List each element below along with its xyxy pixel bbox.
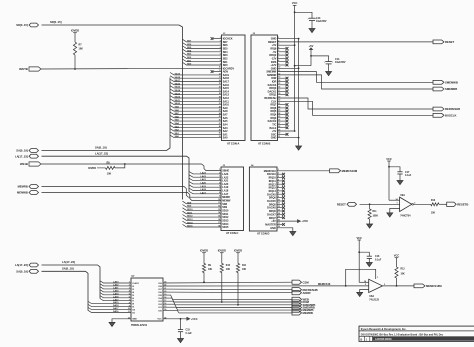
wire R13 to RESETB terminal: [439, 203, 447, 205]
terminal SMEMWB: [292, 303, 302, 307]
svg-text:SA14: SA14: [175, 89, 181, 92]
svg-text:MEMCS16: MEMCS16: [318, 282, 331, 286]
svg-text:SA17: SA17: [113, 307, 119, 310]
svg-text:1234568 98066: 1234568 98066: [375, 338, 392, 341]
svg-text:BUSCLK: BUSCLK: [445, 113, 456, 117]
svg-text:SA12: SA12: [175, 96, 181, 99]
wire MEMRB to MEMR pin: [42, 187, 222, 198]
wire SMEMW to terminal SMEMWB: [278, 72, 434, 83]
terminal RESETB: [447, 202, 457, 206]
svg-text:LA[17..23]: LA[17..23]: [15, 263, 28, 267]
wire U8A enable loop: [346, 269, 376, 286]
wire +5V to VCC rail: [295, 65, 311, 67]
svg-text:IOVDD: IOVDD: [88, 167, 96, 170]
svg-text:SA19: SA19: [175, 73, 181, 76]
ground below U9A: [387, 213, 393, 217]
junction MEMCS16/enable: [345, 285, 347, 287]
no-connect stub pin D2 IOCS16: [277, 173, 283, 175]
wire GND pin D18 to ground: [277, 228, 293, 232]
no-connect stub pin B18 DRQ1: [278, 94, 287, 96]
svg-text:AT CON-B: AT CON-B: [258, 141, 271, 145]
svg-text:IOVDD: IOVDD: [218, 249, 226, 253]
svg-text:R12: R12: [401, 269, 406, 271]
no-connect stub pin B25 IRQ3: [278, 117, 287, 119]
power terminal +VCC at AT CON-D: [298, 220, 301, 223]
terminal MEMCS16M mid: [330, 169, 341, 173]
svg-text:IO3: IO3: [158, 301, 162, 303]
svg-text:R11: R11: [242, 265, 247, 267]
svg-text:WAITB: WAITB: [19, 67, 28, 71]
svg-text:74HCT04: 74HCT04: [400, 215, 411, 218]
capacitor C16 0.1uF: [359, 252, 369, 256]
svg-text:VCC: VCC: [356, 236, 362, 240]
capacitor C15 0.1uF: [180, 319, 182, 330]
wire MEMCS16 pin to terminal MEMCS16M: [277, 170, 330, 172]
svg-text:10K: 10K: [431, 213, 436, 215]
svg-text:RESET: RESET: [337, 202, 346, 206]
svg-text:1: 1: [129, 282, 130, 284]
svg-text:LA21: LA21: [201, 178, 207, 181]
svg-text:VCC: VCC: [157, 319, 162, 321]
no-connect stub pin D5 IRQ12: [277, 183, 283, 185]
svg-text:11: 11: [128, 311, 130, 313]
wire GND pin B31 to rail: [278, 137, 299, 139]
svg-text:SA16: SA16: [113, 310, 119, 313]
svg-text:R13: R13: [431, 200, 436, 202]
svg-text:SA16: SA16: [175, 82, 181, 85]
terminal MEMRB: [292, 311, 302, 315]
connector J? AT CON-A: [222, 35, 246, 141]
svg-text:100K: 100K: [373, 215, 379, 217]
terminal REFRESHB: [292, 288, 302, 292]
svg-text:MEMRB: MEMRB: [303, 311, 313, 315]
svg-text:IO4: IO4: [158, 297, 162, 300]
terminal ROM: [292, 300, 302, 304]
svg-text:SD[0..15]: SD[0..15]: [50, 20, 62, 24]
svg-text:R9: R9: [208, 265, 212, 267]
wire +5V pin B3 to VCC rail: [278, 44, 295, 46]
wire WE1B to SBHE pin: [41, 164, 221, 171]
svg-text:I7: I7: [132, 301, 135, 303]
terminal ADDR: [292, 291, 302, 295]
svg-text:I5: I5: [132, 295, 135, 297]
svg-text:CLK/I1: CLK/I1: [132, 283, 139, 285]
svg-text:SD15: SD15: [222, 226, 229, 229]
svg-text:2: 2: [365, 284, 366, 286]
capacitor C14 10uF/35V: [311, 56, 329, 62]
wire GND pin B10 to rail: [278, 67, 299, 69]
svg-text:3: 3: [129, 288, 130, 290]
no-connect stub pin B14 IOR: [278, 81, 287, 83]
junction WE1B/R8: [124, 163, 126, 165]
terminal MEMWB: [29, 191, 39, 195]
svg-text:LA17: LA17: [201, 191, 207, 194]
svg-text:5: 5: [129, 294, 130, 296]
no-connect stub pin D12 DACK6: [277, 207, 283, 209]
svg-text:SA15: SA15: [175, 86, 181, 89]
GND rail wire right of AT CON-B: [298, 39, 300, 146]
wire PAL output 6 to ROM: [163, 298, 292, 302]
svg-text:RESET: RESET: [445, 40, 454, 44]
junction VCC/C16: [358, 251, 360, 253]
resistor R11 100K pulldown: [369, 204, 371, 209]
svg-text:LA20: LA20: [113, 290, 119, 293]
svg-text:LA[17..23]: LA[17..23]: [95, 151, 108, 155]
junction VCC/C17: [388, 166, 390, 168]
resistor R13 10K: [431, 203, 439, 206]
svg-text:SD12: SD12: [187, 216, 193, 218]
svg-text:SA18: SA18: [113, 304, 119, 307]
svg-text:IO6: IO6: [158, 292, 162, 294]
terminal REFRESHB: [433, 107, 444, 111]
ground below C15: [178, 339, 184, 343]
svg-text:MEMCS16M: MEMCS16M: [426, 284, 442, 288]
svg-text:VCC: VCC: [292, 1, 298, 5]
svg-text:REFRESHB: REFRESHB: [445, 107, 460, 111]
svg-text:LA19: LA19: [201, 185, 207, 188]
svg-text:14: 14: [395, 198, 398, 201]
svg-text:10: 10: [218, 199, 220, 201]
no-connect stub pin B16 DRQ3: [278, 87, 287, 89]
svg-text:IO9: IO9: [158, 283, 162, 285]
no-connect stub pin D15 DRQ7: [277, 217, 283, 219]
svg-text:SA0: SA0: [223, 137, 228, 140]
no-connect stub pin B26 DACK2: [278, 120, 287, 122]
svg-text:0.1uF: 0.1uF: [375, 258, 382, 261]
no-connect stub pin B8 0WS: [278, 61, 287, 63]
ground below C17: [397, 181, 403, 185]
no-connect stub pin D17 MASTER: [277, 223, 283, 225]
svg-text:SA10: SA10: [175, 102, 181, 105]
svg-text:IO5: IO5: [158, 295, 162, 297]
terminal WAITB: [29, 67, 41, 71]
terminal BUSCLK: [433, 113, 444, 117]
no-connect stub pin D7 IRQ14: [277, 190, 283, 192]
svg-text:LA22: LA22: [201, 175, 207, 178]
svg-text:IO1: IO1: [158, 307, 162, 309]
svg-text:10: 10: [219, 67, 221, 69]
no-connect stub pin B28 BALE: [278, 127, 287, 129]
svg-text:10K: 10K: [79, 48, 84, 51]
svg-text:I6: I6: [132, 298, 135, 300]
svg-text:10K: 10K: [107, 173, 112, 176]
no-connect stub pin B23 IRQ5: [278, 110, 287, 112]
wire U9A power pin: [389, 199, 400, 201]
terminal MEMWB: [292, 308, 302, 312]
no-connect stub pin B6 DRQ2: [278, 54, 287, 56]
svg-text:LA23: LA23: [201, 172, 207, 175]
svg-text:SA19: SA19: [113, 301, 119, 304]
ground arrow below GND rail: [296, 146, 302, 150]
capacitor C13 10uF/35V: [295, 12, 312, 18]
svg-text:I10: I10: [132, 310, 136, 312]
no-connect stub pin D11 DRQ5: [277, 203, 283, 205]
SA19..SA0 fan to AT CON-A: [170, 73, 222, 75]
no-connect stub pin B9 +12V: [278, 64, 287, 66]
svg-text:I3: I3: [132, 289, 135, 291]
svg-text:SD11: SD11: [187, 212, 193, 214]
svg-text:VCC: VCC: [394, 254, 400, 258]
svg-text:ADDR: ADDR: [303, 291, 311, 295]
svg-text:+VCC: +VCC: [302, 220, 309, 223]
svg-text:10K: 10K: [208, 269, 213, 271]
no-connect stub pin B27 T/C: [278, 123, 287, 125]
svg-text:R11: R11: [373, 211, 378, 213]
svg-text:0.1uF: 0.1uF: [186, 332, 193, 335]
svg-text:9: 9: [219, 196, 220, 198]
svg-text:SMEMWB: SMEMWB: [445, 80, 458, 84]
no-connect stub pin B22 IRQ6: [278, 107, 287, 109]
svg-text:R7: R7: [79, 44, 83, 47]
wire SA bus to PAL fan: [42, 271, 89, 310]
no-connect stub pin D10 DACK5: [277, 200, 283, 202]
wire PAL output 5 to WEB: [163, 295, 292, 299]
svg-text:GND: GND: [270, 227, 276, 230]
terminal MEMCS16M output: [414, 284, 425, 288]
terminal WE1B: [29, 162, 41, 166]
svg-text:SA17: SA17: [175, 79, 181, 82]
svg-text:+VCC: +VCC: [191, 318, 198, 321]
svg-text:LA22: LA22: [113, 284, 119, 287]
svg-text:IO8: IO8: [158, 286, 162, 288]
wire SD bus vertical: [179, 25, 183, 200]
svg-text:DSU1/3700508C ISA-Bus Rev. 1.0: DSU1/3700508C ISA-Bus Rev. 1.0 Evaluatio…: [361, 333, 444, 336]
wire LA bus to PAL fan: [42, 265, 101, 299]
terminal RESET input: [347, 202, 357, 206]
wire PAL output 4 to ADDR: [163, 291, 292, 294]
svg-text:LA[17..23]: LA[17..23]: [15, 154, 28, 158]
svg-text:GND: GND: [132, 319, 137, 321]
ground below AT CON-D: [290, 232, 296, 236]
buffer U8A 74LS125: [369, 279, 383, 292]
svg-text:10: 10: [128, 308, 130, 310]
connector AT CON-C: [221, 167, 244, 231]
svg-text:1: 1: [377, 277, 378, 279]
no-connect stub pin D14 DACK7: [277, 213, 283, 215]
svg-text:SD14: SD14: [187, 221, 193, 224]
wire U8A output to MEMCS16M terminal: [383, 285, 415, 287]
svg-text:Eysen Research & Development,: Eysen Research & Development, Inc.: [361, 327, 407, 331]
svg-text:LA20: LA20: [201, 182, 207, 185]
capacitor C17 0.1uF: [389, 167, 400, 172]
wire U9A gnd pin: [390, 208, 400, 212]
svg-text:9: 9: [129, 305, 130, 307]
SD0..SD7 fan from SD bus to AT CON-A: [183, 39, 222, 42]
svg-text:1: 1: [397, 202, 398, 204]
svg-text:LA19: LA19: [113, 292, 119, 295]
svg-text:7: 7: [129, 299, 130, 301]
no-connect X on IOCHCK pin A1: [213, 38, 222, 40]
ground below C14: [326, 72, 332, 76]
svg-text:2: 2: [129, 285, 130, 287]
no-connect stub pin D9 DRQ0: [277, 197, 283, 199]
svg-text:8: 8: [129, 302, 130, 304]
svg-text:AT CON-D: AT CON-D: [257, 232, 270, 236]
junction VCC/C15: [180, 318, 182, 320]
svg-text:CSM: CSM: [303, 280, 310, 284]
no-connect stub pin B15 DACK3: [278, 84, 287, 86]
svg-text:IOVDD: IOVDD: [71, 29, 79, 33]
wire PAL output 7 to SMEMWB: [163, 301, 292, 305]
no-connect stub pin D6 IRQ15: [277, 187, 283, 189]
no-connect stub pin D3 IRQ10: [277, 177, 283, 179]
svg-text:0.1uF: 0.1uF: [405, 174, 412, 177]
PAL U7 TIBPAL22V10: [131, 278, 163, 321]
svg-text:I2: I2: [132, 286, 135, 288]
svg-text:LA18: LA18: [201, 188, 207, 191]
svg-text:SD13: SD13: [187, 219, 193, 221]
resistor R12 10K: [395, 267, 398, 278]
wire SMEMR to terminal SMEMRB: [278, 75, 434, 89]
svg-text:R10: R10: [226, 265, 231, 267]
svg-text:AT CON-A: AT CON-A: [227, 141, 240, 145]
no-connect stub pin B7 -12V: [278, 57, 287, 59]
wire RESET to terminal: [278, 41, 434, 43]
connector AT CON-D: [249, 167, 277, 231]
svg-text:I4: I4: [132, 291, 135, 294]
svg-text:MEMCS16M: MEMCS16M: [342, 169, 358, 173]
svg-text:SD[0..15]: SD[0..15]: [16, 23, 28, 27]
svg-text:RESETB: RESETB: [457, 202, 468, 206]
svg-text:I11: I11: [132, 313, 136, 315]
wire WAITB to IOCHRDY pin A10: [41, 67, 222, 70]
no-connect stub pin B30 OSC: [278, 133, 287, 135]
no-connect stub pin D4 IRQ11: [277, 180, 283, 182]
inverter U9A 74HCT04: [400, 197, 412, 211]
junction VCC/C13: [294, 11, 296, 13]
svg-text:LA23: LA23: [113, 281, 119, 284]
svg-text:WE1B: WE1B: [20, 162, 28, 166]
svg-text:6: 6: [129, 296, 130, 298]
svg-text:IOVDD: IOVDD: [234, 249, 242, 253]
connector AT CON-B: [251, 35, 278, 141]
wire U8A power pin: [359, 281, 369, 283]
terminal CSM: [292, 280, 302, 284]
wire PAL output 9 to MEMWB: [163, 307, 292, 310]
power terminal +VCC at PAL: [187, 317, 190, 320]
svg-text:MEMRB: MEMRB: [18, 185, 28, 189]
svg-text:SA11: SA11: [175, 99, 181, 102]
SD8..SD15 fan from SD bus to AT CON-C: [183, 201, 222, 204]
svg-text:TIBPAL22V10: TIBPAL22V10: [131, 324, 148, 327]
wire PAL output 10 to MEMRB: [163, 310, 292, 313]
LA23..LA17 fan into PAL: [100, 281, 131, 283]
no-connect stub pin B21 IRQ7: [278, 104, 287, 106]
wire PAL VCC pin 24: [163, 318, 187, 320]
terminal LA[17..23] bottom: [29, 263, 39, 267]
svg-text:LA18: LA18: [113, 295, 119, 298]
terminal SA[0..19] bottom: [29, 269, 39, 273]
wire PAL GND to ground: [112, 319, 131, 323]
svg-text:+5V: +5V: [309, 44, 314, 48]
svg-text:SA[0..19]: SA[0..19]: [16, 149, 28, 153]
svg-text:SA[0..19]: SA[0..19]: [95, 146, 107, 150]
terminal RESET: [433, 40, 444, 44]
no-connect stub pin B17 DACK1: [278, 90, 287, 92]
svg-text:AT CON-C: AT CON-C: [226, 231, 239, 235]
SA19..SA16 fan into PAL: [88, 301, 131, 303]
wire PAL output 1 to CSM: [163, 281, 292, 284]
svg-text:10K: 10K: [242, 269, 247, 271]
wire PAL output 2 to MEMCS16 net: [163, 285, 292, 287]
ground below PAL: [109, 322, 115, 326]
svg-text:I9: I9: [132, 307, 135, 309]
terminal WEB: [292, 297, 302, 301]
wire MEMWB to MEMW pin: [42, 193, 222, 201]
terminal SD[0..15]: [29, 23, 39, 27]
wire RESET to inverter: [360, 203, 400, 205]
svg-text:SA[0..19]: SA[0..19]: [62, 267, 74, 271]
svg-text:IOVDD: IOVDD: [200, 249, 208, 253]
svg-text:SA18: SA18: [175, 76, 181, 79]
no-connect stub pin D8 DACK0: [277, 193, 283, 195]
junction +5V/C14: [310, 55, 312, 57]
terminal SA[0..19]: [29, 149, 39, 153]
svg-text:SA13: SA13: [175, 92, 181, 95]
wire GND pin B1 to rail: [278, 38, 299, 40]
junction WAITB/R7: [74, 68, 76, 70]
no-connect X on AEN pin A11: [213, 71, 222, 73]
wire LA bus to fan: [42, 156, 190, 191]
wire +5V pin B29 to VCC rail: [278, 130, 295, 132]
junction output/R12: [396, 285, 398, 287]
svg-text:IO0: IO0: [158, 310, 162, 312]
wire SD bus horizontal SD[0..15]: [42, 24, 180, 26]
svg-text:SA[0..19]: SA[0..19]: [16, 269, 28, 273]
VCC rail wire: [294, 5, 296, 131]
svg-text:MEMWB: MEMWB: [17, 191, 28, 195]
svg-text:10uF/35V: 10uF/35V: [335, 61, 346, 64]
ground below C13: [309, 29, 315, 33]
title block: [359, 326, 474, 341]
LA23..LA17 fan to AT CON-C: [189, 172, 221, 174]
svg-text:SD10: SD10: [187, 209, 193, 211]
svg-text:IO7: IO7: [158, 289, 162, 291]
svg-text:U7: U7: [132, 276, 136, 278]
no-connect stub pin B5 -5V: [278, 51, 287, 53]
SA bus vertical from SA[0..19] terminal up to connector A: [42, 78, 171, 151]
svg-text:VCC: VCC: [386, 157, 392, 161]
svg-text:GND: GND: [271, 137, 277, 140]
terminal SMEMWB: [433, 80, 444, 84]
wire REFRESH to terminal REFRESHB: [278, 98, 434, 109]
terminal LA[17..23] mid: [29, 154, 39, 158]
wire U8A gnd pin: [360, 290, 369, 293]
svg-text:1: 1: [219, 169, 220, 171]
svg-text:10uF/35V: 10uF/35V: [316, 20, 327, 23]
svg-text:74LS125: 74LS125: [369, 298, 379, 301]
no-connect stub pin B24 IRQ4: [278, 114, 287, 116]
svg-text:IO2: IO2: [158, 304, 162, 306]
junction RESET/R11 pulldown: [369, 203, 371, 205]
ground below R11: [367, 224, 373, 228]
svg-text:SMEMRB: SMEMRB: [445, 87, 457, 91]
svg-text:U9A: U9A: [400, 194, 405, 197]
ground below C16: [366, 263, 372, 267]
no-connect stub pin D13 DRQ6: [277, 210, 283, 212]
svg-text:LA[17..23]: LA[17..23]: [62, 260, 75, 264]
terminal MEMRB: [29, 185, 39, 189]
wire PAL output 8 to SMEMRB: [163, 304, 292, 307]
svg-text:10K: 10K: [226, 269, 231, 271]
no-connect stub pin B13 IOW: [278, 77, 287, 79]
svg-text:I8: I8: [132, 304, 135, 306]
wire +5V pin D16 to +VCC: [277, 220, 298, 222]
svg-text:10K: 10K: [401, 274, 406, 276]
wire PAL output 3 to REFRESHB: [163, 288, 292, 291]
terminal SMEMRB: [433, 87, 444, 91]
svg-text:SD15: SD15: [187, 226, 193, 228]
